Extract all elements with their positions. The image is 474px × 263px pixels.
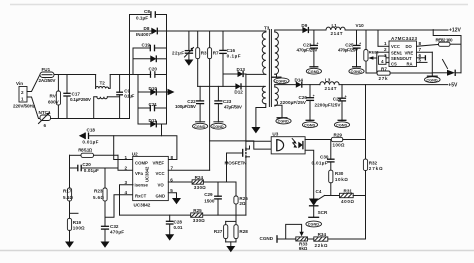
wire R17 to R19 with stub	[70, 201, 79, 218]
ground CGND secondary2 return	[276, 118, 291, 124]
svg-text:RV: RV	[50, 93, 57, 98]
svg-text:R7: R7	[381, 67, 387, 72]
svg-text:214T: 214T	[325, 86, 337, 91]
svg-text:D11: D11	[149, 118, 158, 123]
svg-text:2: 2	[125, 166, 128, 171]
wire Isense pin3 to sense rail	[120, 185, 134, 215]
svg-text:0.1µF: 0.1µF	[227, 54, 241, 59]
pin 7 VRE wire	[417, 47, 433, 52]
svg-text:+: +	[313, 94, 315, 98]
svg-text:U2: U2	[132, 152, 138, 157]
wire secondary2 rail	[275, 84, 296, 86]
svg-text:COMP: COMP	[135, 160, 148, 165]
svg-text:0.01µF: 0.01µF	[312, 161, 328, 166]
svg-text:R30: R30	[335, 171, 344, 176]
diode D8 IN4007	[130, 26, 167, 37]
svg-text:R28: R28	[239, 229, 248, 234]
transistor Q1 MOSFETN	[225, 146, 250, 166]
thermistor NTC1	[39, 110, 51, 128]
wire rectifier right bus	[166, 15, 168, 125]
wire VCC rail to opto	[210, 141, 272, 149]
svg-text:CGND: CGND	[336, 123, 347, 127]
thyristor SCR with C4 label	[309, 189, 328, 217]
svg-text:600V: 600V	[48, 100, 60, 105]
common-mode choke T2	[94, 75, 120, 119]
svg-text:+: +	[345, 94, 347, 98]
resistor R3	[196, 31, 207, 86]
pin 5 RA wire	[417, 58, 428, 63]
ground CGND under C24	[334, 122, 349, 128]
svg-text:C20: C20	[149, 67, 158, 72]
wire rectifier left bus	[129, 15, 131, 119]
svg-text:CGND: CGND	[308, 223, 319, 227]
svg-text:RE82 100: RE82 100	[436, 38, 453, 43]
resistor R8 5.1	[70, 147, 119, 157]
pin 1 VCC wire to +12V rail	[378, 30, 389, 46]
svg-text:R25: R25	[193, 208, 202, 213]
wire bottom divider rail	[328, 238, 366, 240]
svg-text:CGND: CGND	[304, 123, 315, 127]
svg-text:5: 5	[170, 188, 173, 193]
svg-text:2Ω: 2Ω	[239, 201, 246, 206]
resistor R32 27k	[363, 159, 383, 239]
svg-text:6: 6	[44, 123, 47, 128]
optocoupler U3	[271, 132, 305, 154]
svg-text:100µF/25V: 100µF/25V	[175, 104, 197, 109]
svg-text:7: 7	[419, 47, 422, 52]
svg-text:VFa: VFa	[135, 171, 143, 176]
resistor R27	[214, 221, 236, 242]
svg-text:C22: C22	[187, 99, 196, 104]
svg-text:10kΩ: 10kΩ	[335, 177, 348, 182]
svg-text:2: 2	[21, 90, 24, 95]
svg-text:C25: C25	[345, 42, 354, 47]
svg-text:100Ω: 100Ω	[73, 226, 85, 231]
svg-text:C26: C26	[299, 95, 308, 100]
op-amp U4 A7MC3423	[389, 36, 417, 66]
ground arrow under R19	[65, 242, 74, 248]
svg-text:C19: C19	[142, 42, 151, 47]
capacitor C9 0.1uF	[116, 75, 134, 119]
svg-text:0.01: 0.01	[174, 225, 183, 230]
svg-text:330Ω: 330Ω	[193, 218, 205, 223]
capacitor C25 470uF/25V	[338, 30, 361, 67]
svg-text:UC3842: UC3842	[134, 203, 151, 208]
ground CGND under C25	[349, 68, 364, 74]
svg-text:C32: C32	[110, 224, 119, 229]
svg-text:RxCT: RxCT	[135, 193, 147, 198]
svg-text:D12: D12	[234, 90, 243, 95]
wire right node vertical to ground	[431, 52, 433, 76]
svg-text:CGND: CGND	[308, 70, 319, 74]
wire rectifier mid-left vertical	[137, 75, 139, 125]
svg-text:R29: R29	[334, 133, 343, 138]
wire sense rail	[120, 214, 246, 216]
svg-text:R24: R24	[195, 175, 204, 180]
wire +12V branch jog down right	[433, 30, 461, 73]
capacitor C17 0.1uF/250V	[63, 75, 92, 119]
svg-text:CGND: CGND	[278, 120, 289, 124]
ground CGND at T3 secondary1	[272, 77, 290, 84]
capacitor C22 100uF/25V	[175, 86, 205, 121]
svg-text:C8: C8	[144, 9, 150, 14]
svg-text:1500: 1500	[204, 198, 215, 203]
svg-text:D10: D10	[149, 86, 158, 91]
svg-text:C20: C20	[82, 162, 91, 167]
capacitor C28 0.01	[166, 215, 183, 234]
ground arrow under 22uF	[184, 60, 193, 66]
svg-text:UC3842: UC3842	[145, 166, 150, 182]
svg-text:CGND: CGND	[351, 70, 362, 74]
wire secondary1 top rail to +12V	[275, 29, 303, 31]
svg-text:214T: 214T	[331, 31, 343, 36]
svg-text:CGND: CGND	[276, 80, 287, 84]
wire drain vertical	[245, 74, 247, 148]
svg-text:U3: U3	[272, 132, 278, 137]
svg-text:VCC: VCC	[391, 44, 400, 49]
resistor R30 10k	[329, 170, 349, 195]
inductor L1 214T	[326, 23, 345, 36]
svg-text:400Ω: 400Ω	[341, 199, 354, 204]
svg-text:SCR: SCR	[318, 210, 328, 215]
svg-text:47µF/50V: 47µF/50V	[224, 104, 243, 109]
IC U2 UC3842	[132, 152, 168, 208]
diode D10 with output arrow	[138, 86, 175, 95]
ground arrow pin5	[172, 198, 181, 204]
svg-text:C21: C21	[149, 102, 158, 107]
svg-text:L3: L3	[325, 78, 331, 83]
capacitor C16 0.1uF	[219, 31, 241, 86]
svg-text:VCC: VCC	[156, 171, 165, 176]
wire aux rail	[198, 85, 236, 87]
wire +5V rail	[339, 83, 458, 89]
svg-text:1: 1	[125, 155, 128, 160]
resistor R25 330	[191, 208, 206, 223]
capacitor C26 2200uF/25V	[280, 85, 315, 121]
diode D9	[301, 23, 326, 33]
svg-text:C18: C18	[87, 128, 96, 133]
svg-text:0.01µF: 0.01µF	[84, 168, 99, 173]
svg-text:CGND: CGND	[260, 236, 274, 241]
svg-text:CGND: CGND	[426, 78, 437, 82]
capacitor CE1 22uF	[172, 31, 194, 60]
svg-text:C16: C16	[227, 48, 236, 53]
svg-text:27kΩ: 27kΩ	[369, 166, 383, 171]
svg-text:8: 8	[419, 41, 422, 46]
capacitor C23b 47uF/50V	[214, 86, 243, 121]
wire opto to R29	[305, 139, 331, 141]
potentiometer wiper arrow	[368, 56, 377, 60]
wire VCC pin7	[168, 169, 209, 171]
potentiometer R33 9k	[286, 224, 314, 251]
connector J1 Vin	[13, 81, 36, 109]
resistor R17 5.1	[63, 188, 73, 201]
svg-text:VO: VO	[158, 183, 165, 188]
wire secondary1 bottom to ground	[275, 74, 277, 77]
svg-text:D9: D9	[301, 23, 307, 28]
capacitor C29 1500	[204, 182, 222, 215]
svg-text:22µF: 22µF	[172, 51, 184, 56]
inductor L3 214T	[320, 78, 339, 91]
svg-text:CGND: CGND	[194, 125, 205, 129]
capacitor C30 0.01uF	[312, 140, 335, 171]
svg-text:A7MC3423: A7MC3423	[391, 36, 417, 41]
wire +12V rail with V10 node	[345, 23, 461, 34]
wire C19 left vertical	[132, 48, 134, 75]
svg-text:0.1µF250V: 0.1µF250V	[70, 97, 92, 102]
diode D13	[223, 67, 246, 77]
svg-text:Vin: Vin	[16, 81, 23, 86]
wire C18 to VREF over IC	[89, 136, 177, 160]
wire COMP pin1	[114, 136, 133, 160]
svg-text:27k: 27k	[379, 76, 388, 81]
wire aux winding return	[256, 104, 266, 127]
svg-text:2A/250V: 2A/250V	[39, 78, 57, 83]
svg-text:R27: R27	[214, 229, 223, 234]
svg-text:R32: R32	[369, 160, 378, 165]
capacitor C24 2200uF/25V	[315, 85, 347, 121]
resistor R26 2ohm gate pulldown	[234, 182, 248, 221]
svg-text:2200µF/25V: 2200µF/25V	[315, 102, 342, 107]
ground arrow under R27/R28	[226, 246, 235, 252]
svg-text:5.6Ω: 5.6Ω	[93, 195, 104, 200]
svg-text:D14: D14	[295, 78, 304, 83]
resistor R24 330	[192, 175, 236, 190]
capacitor C23 470uF/25V	[297, 30, 319, 67]
capacitor C18 0.01uF with left arrow	[79, 128, 99, 145]
svg-text:R34: R34	[318, 232, 327, 237]
svg-text:R7: R7	[213, 51, 219, 56]
ground CGND left of R33	[260, 235, 296, 243]
svg-text:R23: R23	[94, 188, 103, 193]
pin 2 SEN1 wire down to R7b	[377, 47, 389, 73]
svg-text:R3: R3	[201, 51, 207, 56]
capacitor C8 0.1uF	[130, 9, 167, 20]
svg-text:R19: R19	[73, 220, 82, 225]
svg-text:22kΩ: 22kΩ	[315, 243, 328, 248]
resistor R19 100	[67, 218, 85, 241]
ground arrow under C32	[101, 242, 110, 248]
svg-text:+: +	[317, 42, 319, 46]
pin 8 DO wire	[417, 41, 439, 46]
svg-text:220V/50Hz: 220V/50Hz	[13, 104, 36, 109]
svg-text:C24: C24	[333, 96, 342, 101]
capacitor C20a on live rail	[149, 67, 158, 78]
wire GND pin5	[168, 193, 176, 198]
fuse FU1 2A/250V	[39, 67, 57, 83]
ground CGND under C23b	[211, 123, 226, 129]
svg-text:MOSFETN: MOSFETN	[225, 161, 248, 166]
svg-text:2200µF/25V: 2200µF/25V	[280, 100, 307, 105]
svg-text:470µF/25V: 470µF/25V	[338, 48, 359, 53]
svg-text:+12V: +12V	[449, 28, 461, 34]
svg-text:CGND: CGND	[213, 125, 224, 129]
svg-text:NTC1: NTC1	[39, 110, 51, 115]
wire D11 row to VREF wire	[161, 124, 163, 136]
svg-text:SEN1: SEN1	[391, 50, 403, 55]
diode D12	[234, 83, 263, 94]
wire live rail T2 to rectifier	[110, 74, 166, 76]
svg-text:9kΩ: 9kΩ	[299, 246, 308, 251]
potentiometer RE82a	[364, 30, 380, 73]
svg-text:470µF: 470µF	[110, 230, 124, 235]
diode D15	[432, 60, 461, 77]
wire gate vertical	[227, 153, 243, 182]
ground arrow aux return	[251, 127, 260, 133]
svg-text:8: 8	[171, 155, 174, 160]
resistor RE82 100	[436, 38, 462, 47]
wire source vertical to sense rail	[245, 158, 247, 215]
wire VCC node vertical R7a down to UC3842 pin7	[209, 59, 211, 171]
svg-text:RE82: RE82	[369, 50, 380, 55]
capacitor C32 470uF	[101, 224, 124, 241]
svg-text:4: 4	[125, 190, 128, 195]
svg-text:C29: C29	[204, 192, 213, 197]
transformer T3	[246, 26, 279, 107]
wire secondary2 bottom return	[275, 105, 282, 118]
ground CGND right	[425, 76, 441, 82]
wire VFB pin2	[118, 155, 133, 170]
svg-text:4: 4	[381, 59, 384, 64]
wire feedback vertical from +5V	[365, 85, 367, 160]
svg-text:VREF: VREF	[153, 160, 165, 165]
svg-text:GND: GND	[156, 193, 166, 198]
svg-text:0.01µF: 0.01µF	[82, 140, 98, 145]
diode D14	[295, 78, 320, 88]
wire drain to opto upper pin	[246, 140, 271, 142]
svg-text:470µF/25V: 470µF/25V	[297, 48, 319, 53]
wire opto cathode to SCR	[305, 150, 314, 198]
varistor RV 600V	[48, 75, 61, 119]
svg-text:RA: RA	[407, 62, 413, 67]
ground CGND under C22	[193, 123, 208, 129]
diode D9a	[133, 55, 167, 62]
diode D11	[138, 118, 167, 127]
svg-text:0.1µF: 0.1µF	[136, 16, 148, 21]
capacitor C20 0.01uF	[70, 162, 119, 173]
svg-text:Isense: Isense	[135, 183, 149, 188]
svg-text:CS: CS	[391, 62, 397, 67]
resistor R31 400	[340, 189, 366, 205]
svg-text:IN4007: IN4007	[136, 32, 151, 37]
ground CGND under C23	[306, 68, 321, 74]
svg-text:1: 1	[21, 97, 24, 102]
svg-text:C17: C17	[72, 91, 81, 96]
svg-text:VRE: VRE	[405, 50, 414, 55]
wire AC neutral from connector to NTC	[27, 97, 40, 119]
svg-text:1: 1	[384, 41, 387, 46]
resistor R29 100	[331, 133, 365, 148]
ground CGND under C26	[302, 122, 317, 128]
svg-text:R31: R31	[344, 189, 353, 194]
svg-text:R8 5.1Ω: R8 5.1Ω	[78, 147, 92, 152]
svg-text:3: 3	[125, 180, 128, 185]
svg-text:C4: C4	[316, 189, 322, 194]
svg-text:V10: V10	[356, 23, 365, 28]
svg-text:+5V: +5V	[448, 83, 458, 89]
svg-text:C23: C23	[223, 99, 232, 104]
resistor R7b 27k	[366, 67, 432, 82]
svg-text:T2: T2	[100, 81, 106, 86]
wire R8/C20 left vertical	[69, 155, 71, 188]
wire live rail fuse to T2	[54, 74, 96, 76]
ground CGND under SCR	[306, 217, 322, 227]
svg-text:D13: D13	[237, 67, 246, 72]
pin number labels U2	[125, 155, 174, 195]
svg-text:DO: DO	[406, 44, 413, 49]
ground arrow under C28	[165, 234, 174, 240]
resistor R34 22k	[314, 232, 328, 248]
svg-text:330Ω: 330Ω	[194, 185, 206, 190]
capacitor C21	[138, 102, 167, 111]
svg-text:5.1Ω: 5.1Ω	[63, 195, 73, 200]
svg-text:5: 5	[419, 58, 422, 63]
wire AC live from connector to fuse	[27, 75, 40, 92]
capacitor C19	[133, 42, 167, 51]
resistor R28	[226, 221, 249, 246]
wire HV+ top bus	[167, 30, 266, 32]
wire R30 junction to R31	[325, 195, 340, 197]
svg-text:C28: C28	[174, 219, 183, 224]
wire RxCT pin4	[105, 195, 133, 217]
svg-text:100Ω: 100Ω	[333, 142, 345, 147]
pin 6 IOUT stub	[417, 53, 426, 61]
resistor R23 5.6	[93, 168, 107, 226]
svg-text:R17: R17	[63, 188, 72, 193]
svg-text:C30: C30	[320, 154, 329, 159]
wire VO pin6	[168, 181, 192, 183]
svg-text:L1: L1	[332, 23, 338, 28]
component box at pins 3/4	[379, 53, 390, 65]
svg-text:+: +	[359, 42, 361, 46]
svg-text:3: 3	[384, 53, 387, 58]
svg-text:2: 2	[384, 47, 387, 52]
svg-text:FU1: FU1	[42, 67, 51, 72]
wire AC neutral rail	[51, 118, 130, 120]
resistor R7a	[208, 31, 219, 59]
svg-text:C23: C23	[303, 42, 312, 47]
svg-text:IOUT: IOUT	[402, 56, 412, 61]
svg-text:D8: D8	[144, 26, 150, 31]
